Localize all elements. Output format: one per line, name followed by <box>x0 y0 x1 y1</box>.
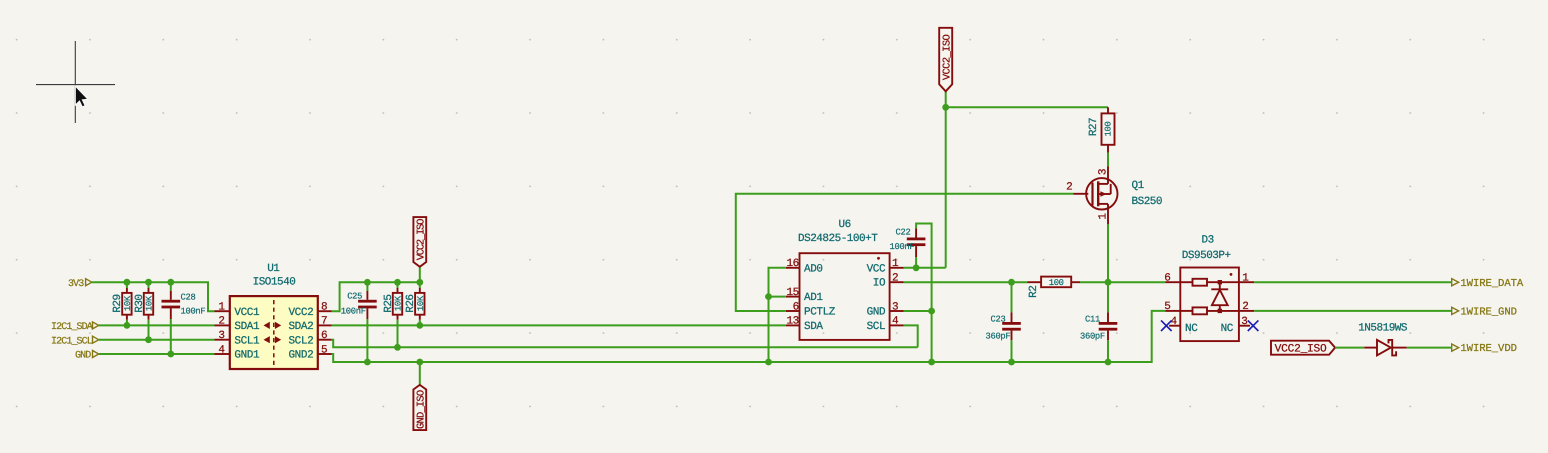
svg-text:AD0: AD0 <box>804 263 823 275</box>
svg-text:R2: R2 <box>1028 286 1040 298</box>
capacitor C23 360pF <box>986 282 1021 362</box>
svg-text:3: 3 <box>218 330 224 342</box>
D3 pin 2 <box>1239 301 1254 313</box>
junction C28/GND <box>167 351 174 358</box>
U1 pin 6 <box>318 330 332 342</box>
U1 pin 5 <box>318 344 332 356</box>
node 1WIRE_DATA hierarchical label <box>1452 278 1524 290</box>
wire Q1 drain to IO rail <box>1107 224 1109 282</box>
svg-text:VCC2_ISO: VCC2_ISO <box>941 35 953 81</box>
svg-text:100: 100 <box>1104 122 1114 137</box>
wire SDA2 rail U1 pin7 to U6 pin13 <box>332 324 786 326</box>
junction VCC2/R26/VCC2_ISO <box>416 279 423 286</box>
svg-text:4: 4 <box>218 344 225 356</box>
svg-text:AD1: AD1 <box>804 292 823 304</box>
wire VCC2_ISO rail to R27 <box>946 106 1108 108</box>
junction C23/GND rail <box>1008 359 1015 366</box>
svg-text:DS9503P+: DS9503P+ <box>1182 250 1231 262</box>
svg-text:4: 4 <box>892 316 899 328</box>
node 3V3 hierarchical label <box>68 279 92 290</box>
svg-text:GND: GND <box>867 307 886 319</box>
svg-text:SDA1: SDA1 <box>234 321 260 333</box>
wire AD0/AD1 tie to GND rail <box>769 268 786 362</box>
node I2C1_SCL hierarchical label <box>51 336 99 347</box>
junction C22/VCC <box>913 264 920 271</box>
svg-text:1: 1 <box>218 302 225 314</box>
wire U6 SCL pin4 riser <box>904 325 918 347</box>
svg-text:C22: C22 <box>896 228 911 238</box>
svg-text:1: 1 <box>1097 213 1109 220</box>
resistor R25 10K <box>383 282 404 347</box>
svg-text:6: 6 <box>321 330 327 342</box>
resistor R27 100 <box>1088 107 1115 166</box>
svg-text:3: 3 <box>892 301 898 313</box>
wire D3 pin2 to 1WIRE_GND <box>1254 310 1452 312</box>
U6 pin 4 SCL <box>890 316 904 328</box>
svg-text:GND_ISO: GND_ISO <box>415 390 427 429</box>
svg-text:SCL: SCL <box>867 321 886 333</box>
svg-text:C28: C28 <box>181 292 196 302</box>
U6 pin 1 VCC <box>890 258 904 270</box>
svg-text:I2C1_SCL: I2C1_SCL <box>51 336 93 347</box>
svg-text:5: 5 <box>1164 301 1170 313</box>
wire GND to U1 pin 4 <box>99 353 215 355</box>
capacitor C22 100nF <box>890 224 932 312</box>
wire VCC2_ISO to D1 anode <box>1335 347 1364 349</box>
svg-text:U6: U6 <box>839 219 851 231</box>
D3 pin 4 no-connect <box>1161 316 1180 331</box>
wire GND_ISO rail U1 pin5 to D3 pin5 riser <box>332 311 1166 362</box>
D3 pin 6 <box>1164 272 1180 284</box>
transistor Q1 BS250 <box>1066 167 1162 225</box>
svg-text:16: 16 <box>786 258 798 270</box>
diode D3 DS9503P+ body <box>1180 234 1239 341</box>
svg-text:100nF: 100nF <box>890 242 915 252</box>
junction AD1 riser <box>765 293 772 300</box>
capacitor C25 100nF <box>341 282 377 362</box>
wire R2 to D3 pin6 <box>1080 281 1165 283</box>
svg-text:C23: C23 <box>991 314 1006 324</box>
op-amp U6 DS24825-100+T body <box>798 219 890 340</box>
junction VCC2/C25 <box>364 279 371 286</box>
junction VCC2_ISO <box>942 104 949 111</box>
svg-text:I2C1_SDA: I2C1_SDA <box>51 322 93 333</box>
power VCC2_ISO global label (right) <box>1271 341 1335 356</box>
svg-text:1: 1 <box>892 258 899 270</box>
svg-text:NC: NC <box>1185 323 1198 335</box>
wire GND riser to rail <box>931 311 933 362</box>
svg-text:13: 13 <box>786 316 798 328</box>
node 1WIRE_VDD hierarchical label <box>1452 343 1517 355</box>
wire I2C1_SCL to U1 pin 3 <box>99 339 215 341</box>
svg-text:VCC2: VCC2 <box>288 307 313 319</box>
resistor R30 10K <box>134 282 155 340</box>
wire D1 cathode to 1WIRE_VDD <box>1407 347 1452 349</box>
svg-text:360pF: 360pF <box>986 332 1011 342</box>
junction GND_ISO/GND rail <box>416 359 423 366</box>
junction C11/GND rail <box>1105 359 1112 366</box>
junction 3V3/R29 <box>124 279 131 286</box>
svg-text:GND: GND <box>75 351 91 362</box>
svg-text:10K: 10K <box>145 295 155 311</box>
svg-text:2: 2 <box>1242 301 1248 313</box>
resistor R26 10K <box>405 282 426 325</box>
svg-text:2: 2 <box>1066 182 1072 194</box>
resistor R2 100 <box>1028 277 1081 298</box>
op-amp U1 ISO1540 body <box>230 263 318 369</box>
junction Q1 drain/C11/IO <box>1105 279 1112 286</box>
capacitor C11 360pF <box>1080 282 1117 362</box>
wire U6 VCC pin to VCC2_ISO riser <box>904 267 946 269</box>
junction AD0-AD1 riser / GND rail <box>765 359 772 366</box>
svg-text:IO: IO <box>873 278 886 290</box>
svg-text:SCL2: SCL2 <box>288 335 313 347</box>
svg-text:DS24825-100+T: DS24825-100+T <box>798 233 878 245</box>
svg-text:SCL1: SCL1 <box>234 335 260 347</box>
junction 3V3/R30 <box>145 279 152 286</box>
svg-text:100nF: 100nF <box>181 306 206 316</box>
wire I2C1_SDA to U1 pin 2 <box>99 324 215 326</box>
junction VCC2/R25 <box>394 279 401 286</box>
U1 pin 7 <box>318 316 332 328</box>
U6 pin 2 IO <box>890 273 904 285</box>
svg-text:SDA: SDA <box>804 321 823 333</box>
svg-text:1: 1 <box>1242 272 1249 284</box>
diode 1N5819WS <box>1358 323 1408 356</box>
D3 pin 5 <box>1164 301 1180 313</box>
svg-text:6: 6 <box>793 301 799 313</box>
svg-text:Q1: Q1 <box>1132 180 1145 192</box>
U1 pin 1 <box>215 302 230 314</box>
junction R29/SDA <box>124 322 131 329</box>
svg-text:15: 15 <box>786 287 798 299</box>
svg-text:C25: C25 <box>347 292 362 302</box>
svg-text:VCC2_ISO: VCC2_ISO <box>415 219 427 261</box>
svg-text:4: 4 <box>1170 316 1177 328</box>
svg-text:100nF: 100nF <box>341 307 366 317</box>
svg-text:10K: 10K <box>394 295 404 311</box>
svg-text:R27: R27 <box>1088 118 1100 136</box>
svg-text:10K: 10K <box>123 295 133 311</box>
node GND hierarchical label <box>75 351 99 362</box>
svg-text:10K: 10K <box>416 295 426 311</box>
svg-text:SDA2: SDA2 <box>288 321 313 333</box>
svg-text:1WIRE_VDD: 1WIRE_VDD <box>1460 343 1517 355</box>
svg-text:1N5819WS: 1N5819WS <box>1358 323 1408 335</box>
junction GND pin riser <box>928 308 935 315</box>
wire VCC2_ISO riser to U6 VCC <box>945 107 947 267</box>
svg-text:PCTLZ: PCTLZ <box>804 307 836 319</box>
junction C25/GND rail <box>364 359 371 366</box>
U6 pin 6 PCTLZ <box>786 301 800 313</box>
svg-text:C11: C11 <box>1085 314 1100 324</box>
D3 pin 3 no-connect <box>1239 316 1259 331</box>
svg-text:100: 100 <box>1049 278 1064 288</box>
wire SCL2 rail U1 pin6 to U6 pin4 riser <box>332 340 918 348</box>
node 1WIRE_GND hierarchical label <box>1452 307 1517 319</box>
svg-text:U1: U1 <box>267 263 280 275</box>
ground GND_ISO global label <box>413 362 427 430</box>
junction R30/SCL <box>145 336 152 343</box>
svg-text:GND1: GND1 <box>234 350 260 362</box>
svg-text:3: 3 <box>1097 169 1109 175</box>
wire PCTLZ to Q1 gate <box>736 194 1074 311</box>
svg-text:1WIRE_GND: 1WIRE_GND <box>1460 307 1517 319</box>
svg-text:BS250: BS250 <box>1132 196 1163 208</box>
svg-text:VCC2_ISO: VCC2_ISO <box>1275 344 1327 356</box>
svg-text:6: 6 <box>1164 272 1170 284</box>
svg-text:2: 2 <box>892 273 898 285</box>
power VCC2_ISO global label (top) <box>939 28 953 108</box>
svg-text:2: 2 <box>218 316 224 328</box>
node I2C1_SDA hierarchical label <box>51 322 99 333</box>
wire D3 pin1 to 1WIRE_DATA <box>1254 281 1452 283</box>
junction GND riser/rail <box>928 359 935 366</box>
svg-text:3V3: 3V3 <box>68 279 84 290</box>
wire 3V3 rail <box>92 282 215 311</box>
U6 pin 16 AD0 <box>786 258 800 270</box>
wire U6 GND pin to riser <box>904 310 932 312</box>
wire IO rail U6 pin2 to R2 <box>904 281 1028 283</box>
power VCC2_ISO global label (left) <box>413 217 427 282</box>
svg-text:D3: D3 <box>1202 234 1214 246</box>
U6 pin 15 AD1 <box>786 287 800 299</box>
svg-text:VCC1: VCC1 <box>234 307 260 319</box>
svg-text:NC: NC <box>1221 323 1234 335</box>
U6 pin 3 GND <box>890 301 904 313</box>
capacitor C28 100nF <box>162 282 206 354</box>
junction R26/SDA2 <box>416 322 423 329</box>
U1 pin 8 <box>318 302 332 314</box>
wire U1 pin8 to VCC2 rail <box>332 282 420 311</box>
U6 pin 13 SDA <box>786 316 800 328</box>
resistor R29 10K <box>112 282 133 325</box>
svg-text:1WIRE_DATA: 1WIRE_DATA <box>1460 278 1523 290</box>
svg-text:8: 8 <box>321 302 327 314</box>
cursor crosshair <box>36 41 115 123</box>
U1 pin 3 <box>215 330 230 342</box>
svg-text:3: 3 <box>1241 316 1247 328</box>
D3 pin 1 <box>1239 272 1254 284</box>
junction C23/IO <box>1008 279 1015 286</box>
junction 3V3/C28 <box>167 279 174 286</box>
svg-text:360pF: 360pF <box>1080 332 1105 342</box>
U1 pin 4 <box>215 344 230 356</box>
U1 pin 2 <box>215 316 230 328</box>
svg-text:7: 7 <box>321 316 327 328</box>
svg-text:VCC: VCC <box>867 263 886 275</box>
svg-text:5: 5 <box>321 344 327 356</box>
svg-text:ISO1540: ISO1540 <box>253 276 296 288</box>
svg-text:GND2: GND2 <box>288 350 313 362</box>
wire AD1 stub <box>769 296 786 298</box>
junction R25/SCL2 <box>394 344 401 351</box>
